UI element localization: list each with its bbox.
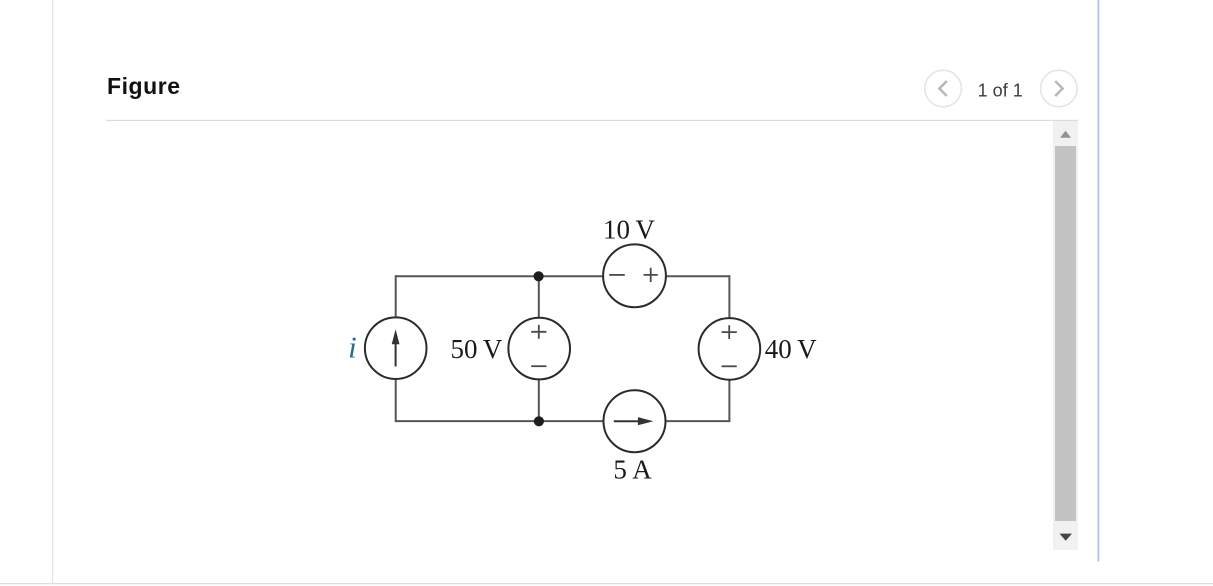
voltage source 40 V — [699, 318, 761, 380]
svg-text:50 V: 50 V — [450, 334, 502, 364]
svg-text:i: i — [348, 329, 357, 364]
wire right rail — [728, 275, 730, 422]
voltage source 10 V — [603, 244, 666, 307]
svg-text:Figure: Figure — [107, 73, 181, 99]
wire left rail — [395, 275, 397, 422]
wire top rail — [396, 275, 730, 277]
voltage source 50 V — [508, 318, 570, 380]
current source 5 A — [604, 390, 666, 452]
node bottom junction — [534, 416, 544, 426]
node top junction — [534, 271, 544, 281]
current source i — [365, 317, 427, 379]
svg-text:5 A: 5 A — [613, 455, 652, 485]
svg-text:40 V: 40 V — [765, 334, 817, 364]
svg-text:10 V: 10 V — [603, 214, 655, 244]
svg-text:1 of 1: 1 of 1 — [978, 81, 1023, 101]
pagination — [925, 70, 1077, 107]
scrollbar — [1053, 121, 1078, 550]
wire middle branch — [538, 276, 540, 421]
wire bottom rail — [396, 420, 730, 422]
